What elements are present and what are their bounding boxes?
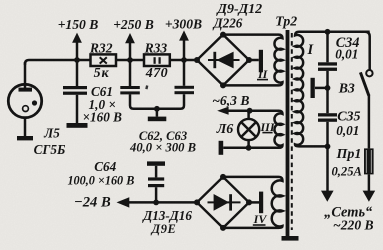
wire bridge IV right to chassis [249,201,259,204]
wire +300V arrow stem [183,40,186,60]
capacitor C64 plates [148,177,164,180]
node B3 chassis junction [325,85,331,91]
wire +250V arrow stem [129,42,132,60]
wire to chassis at B3 [315,87,328,90]
node bridge II top [220,32,226,38]
wire C34 to C35 [326,71,329,113]
node bridge II bottom [220,82,226,88]
wire ~6.3V line [228,109,250,112]
capacitor C64 chassis bar [147,161,165,165]
resistor R32 power mark X [100,57,107,63]
lamp L6 bottom lead [247,140,250,148]
chassis bar at B3 [311,78,315,98]
lamp L6 [238,119,259,140]
node lamp bottom junction [246,145,252,151]
capacitor C35 plates [318,113,337,116]
node C62/C63 common [154,106,160,112]
capacitor C63 top lead [183,60,186,86]
capacitor C64 top lead [155,166,158,178]
capacitor C61 top lead [76,60,79,86]
capacitor C34 top lead [326,32,329,63]
resistor R33 power mark II [154,57,156,64]
node bridge IV top [220,174,226,180]
capacitor C61 plates [63,86,87,89]
diode inside bridge IV [208,201,241,203]
wire top to switch B3 [365,32,370,70]
node lamp top junction [247,108,253,114]
arrow mains left head [321,191,334,202]
wire node to ground [156,109,159,117]
transformer winding III with leads [223,111,282,148]
wire C62 bottom to common node [130,94,157,108]
chassis bar at winding III [219,141,224,155]
chassis bar at bridge II [259,50,263,73]
switch B3 contact [366,70,372,76]
transformer core solid line [286,30,290,236]
tube cathode lead [24,117,27,137]
node +250V junction [127,57,133,63]
node C34 top junction [325,29,331,35]
fuse Pr1 body [364,148,374,174]
node bridge IV left [194,199,200,205]
arrow +250V head [125,33,135,43]
arrow mains right head [363,191,376,202]
resistor R33 body [144,54,170,66]
diode inside bridge II [208,59,240,61]
ground chassis bar under tube [17,136,33,140]
wire bridge II right to chassis [249,59,259,62]
rectifier bridge II outline [197,35,249,86]
chassis bar at bridge IV [259,192,263,214]
transformer screen dashed line [291,33,293,230]
node primary bottom junction [325,144,331,150]
wire C63 bottom to common node [157,94,184,109]
wire bridge II top to winding II / transformer winding II / wire back to bridge II bottom [223,35,283,86]
capacitor C34 plates [318,62,337,65]
arrow +150V head [72,33,82,43]
ground chassis bar under C62 C63 [148,117,167,122]
transformer primary winding I with top and bottom leads [295,32,370,147]
ink speck [145,85,148,89]
capacitor C61 bottom lead [76,95,79,123]
arrow ~6.3V head [217,107,228,115]
tube anode bar [19,88,33,92]
wire +150V arrow stem [76,42,79,60]
capacitor C62 plates [120,86,140,89]
capacitor C64 bottom lead [155,187,158,202]
wire fuse to mains right lead [368,174,371,191]
resistor R32 body [91,54,117,66]
capacitor C63 plates [175,86,195,89]
capacitor C62 top lead [129,60,132,86]
wire mains left lead [326,146,329,191]
arrow +300V head [179,30,189,40]
node bridge IV right [246,199,252,205]
wire switch to fuse [368,95,371,149]
tube U Л5 СГ5Б envelope [8,84,41,117]
switch B3 blade [360,72,369,95]
node +300V junction [181,57,187,63]
node bridge II right [246,57,252,63]
node C64 junction [153,200,159,206]
arrow -24V head [117,197,130,207]
lamp L6 top lead [247,111,250,119]
node bridge II left [194,57,200,63]
ground chassis bar under C61 [67,123,88,128]
rectifier bridge IV outline [197,177,249,228]
wire -24V rail [128,201,198,204]
wire C35 bottom [326,122,329,147]
node +150V junction [74,57,80,63]
wire bridge IV top to winding IV / transformer winding IV / wire back to bridge IV bottom [223,177,283,228]
tube cathode circle [23,106,29,112]
wire main +rail [25,60,197,65]
ground chassis bar under core [282,236,299,241]
node bridge IV bottom [220,225,226,231]
tube anode lead [24,62,27,88]
tube gas dot [32,100,37,105]
